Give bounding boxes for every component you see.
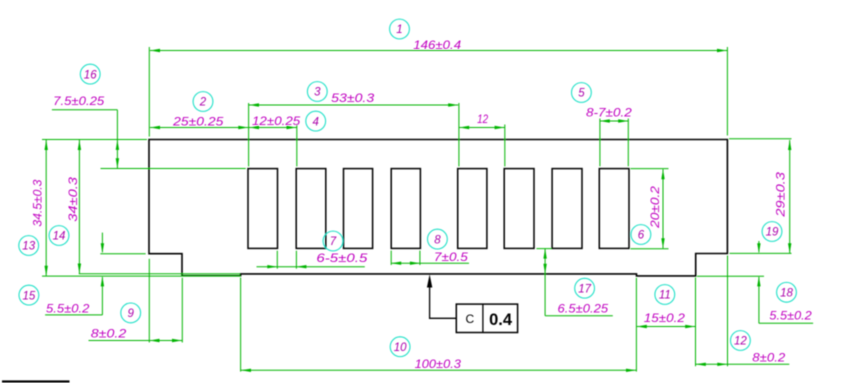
svg-text:18: 18 — [780, 288, 793, 300]
svg-text:34±0.3: 34±0.3 — [66, 177, 80, 222]
extension slot8 left — [599, 119, 601, 167]
dimension 9 arrows — [150, 340, 183, 342]
balloon 16 — [80, 64, 100, 84]
extension slot8 right — [627, 119, 629, 167]
dimension 7 line 6-5 — [276, 251, 278, 269]
dimension 10 line 100 — [241, 369, 636, 371]
svg-text:146±0.4: 146±0.4 — [413, 38, 461, 52]
svg-text:19: 19 — [766, 227, 779, 239]
dimension 9 line 8 — [89, 340, 150, 342]
slot 7 — [552, 169, 582, 249]
extension slot6 left — [504, 125, 506, 167]
svg-text:17: 17 — [578, 283, 591, 295]
balloon 7 — [323, 231, 343, 251]
svg-text:15±0.2: 15±0.2 — [644, 311, 685, 325]
svg-text:6: 6 — [638, 230, 645, 242]
slot 3 — [344, 169, 373, 249]
svg-text:7.5±0.25: 7.5±0.25 — [53, 94, 104, 108]
svg-text:29±0.3: 29±0.3 — [773, 172, 787, 218]
extension right edge down — [727, 256, 729, 367]
svg-text:8±0.2: 8±0.2 — [752, 351, 785, 365]
extension slot7 bottom leftward — [536, 248, 551, 250]
extension foot-bottom leftward — [42, 275, 241, 277]
slot 2 — [296, 169, 326, 249]
svg-text:6-5±0.5: 6-5±0.5 — [316, 251, 367, 265]
extension left edge top — [148, 47, 150, 137]
datum box C 0.4 — [456, 304, 517, 332]
slot 1 — [248, 169, 278, 249]
extension slot8 bottom rightward — [631, 248, 669, 250]
drawing frame edge bottom-left — [2, 380, 70, 382]
balloon 5 — [572, 83, 592, 103]
dimension 16 line 7.5 — [52, 109, 118, 111]
svg-text:8: 8 — [434, 234, 441, 246]
dimension 12 line 8 — [696, 363, 790, 365]
dimension 13 line 34.5 — [45, 140, 47, 276]
extension bottom rightward — [697, 275, 764, 277]
balloon 17 — [575, 278, 595, 298]
balloon 15 — [19, 285, 39, 305]
extension right edge top — [726, 47, 728, 136]
svg-text:0.4: 0.4 — [489, 311, 513, 329]
svg-text:10: 10 — [394, 342, 407, 354]
balloon 8 — [428, 229, 448, 249]
svg-text:5: 5 — [578, 88, 585, 100]
dimension 1 line 146 — [150, 50, 727, 52]
balloon 1 — [390, 19, 410, 39]
extension slot8 top rightward — [631, 168, 669, 170]
dimension 15 line 5.5 — [101, 233, 103, 253]
svg-text:12: 12 — [734, 336, 747, 348]
svg-text:5.5±0.2: 5.5±0.2 — [46, 302, 90, 316]
svg-text:3: 3 — [314, 87, 321, 99]
extension left step leftward — [100, 253, 145, 255]
svg-text:7: 7 — [330, 236, 337, 248]
balloon 6 — [631, 225, 651, 245]
svg-text:25±0.25: 25±0.25 — [172, 114, 224, 128]
slot 5 — [458, 169, 487, 249]
balloon 9 — [121, 303, 141, 323]
svg-text:12±0.25: 12±0.25 — [252, 114, 301, 128]
svg-text:20±0.2: 20±0.2 — [648, 186, 662, 229]
balloon 12 — [731, 331, 751, 351]
svg-text:100±0.3: 100±0.3 — [415, 357, 462, 371]
datum leader arrow — [427, 274, 432, 287]
extension left edge down — [148, 259, 150, 343]
dimension 8 line 7 — [390, 251, 392, 265]
balloon 11 — [655, 285, 675, 305]
svg-text:53±0.3: 53±0.3 — [331, 91, 374, 105]
part outline — [149, 140, 727, 276]
dimension 19 line 29 — [789, 140, 791, 253]
svg-text:9: 9 — [127, 308, 134, 320]
extension body top leftward — [42, 139, 147, 141]
extension right step rightward — [730, 252, 792, 254]
extension slot2 left — [296, 125, 298, 167]
dimension 14 line 34 — [78, 140, 80, 274]
svg-text:5.5±0.2: 5.5±0.2 — [769, 309, 812, 323]
extension body top rightward — [729, 138, 792, 140]
svg-text:1: 1 — [396, 24, 402, 36]
svg-text:13: 13 — [22, 241, 35, 253]
balloon 3 — [307, 82, 327, 102]
svg-text:14: 14 — [53, 231, 66, 243]
balloon 2 — [193, 92, 213, 112]
extension left foot down — [181, 278, 183, 343]
svg-text:15: 15 — [23, 290, 36, 302]
extension bottom step2 down — [635, 278, 637, 372]
dimension 6 line 20 — [662, 169, 664, 248]
balloon 18 — [777, 282, 797, 302]
extension bottom step1 down — [240, 278, 242, 372]
slot 8 — [599, 169, 629, 249]
extension bottom step3 down — [695, 278, 697, 367]
svg-text:7±0.5: 7±0.5 — [434, 250, 468, 264]
extension slot1 left — [248, 103, 250, 166]
dimension 5 line 8-7 — [600, 120, 628, 122]
svg-text:2: 2 — [199, 97, 207, 109]
slot 4 — [391, 169, 420, 249]
extension mid-bottom leftward — [79, 273, 240, 275]
dimension 2 line 25 — [150, 127, 248, 129]
svg-text:34.5±0.3: 34.5±0.3 — [30, 179, 44, 226]
balloon 14 — [49, 226, 69, 246]
balloon 10 — [390, 337, 410, 357]
balloon 4 — [306, 111, 326, 131]
balloon 19 — [762, 222, 782, 242]
dimension 11 line 15 — [637, 326, 695, 328]
dimension 18 line 5.5 — [758, 241, 760, 252]
svg-text:C: C — [465, 312, 474, 326]
extension slot-top leftward — [101, 168, 246, 170]
svg-text:6.5±0.25: 6.5±0.25 — [558, 302, 609, 316]
dimension 4 line 12 — [249, 127, 297, 129]
svg-text:4: 4 — [312, 116, 318, 128]
svg-text:11: 11 — [659, 290, 671, 302]
dimension 17 line 6.5 — [544, 249, 546, 316]
extension slot5 left — [458, 103, 460, 166]
dimension 3 line 53 — [249, 104, 458, 106]
dimension pitch line 12 — [459, 127, 504, 129]
svg-text:16: 16 — [84, 69, 97, 81]
balloon 13 — [19, 236, 39, 256]
slot 6 — [504, 169, 534, 249]
svg-text:8-7±0.2: 8-7±0.2 — [586, 105, 632, 119]
svg-text:8±0.2: 8±0.2 — [91, 327, 127, 341]
svg-text:12: 12 — [477, 112, 488, 126]
